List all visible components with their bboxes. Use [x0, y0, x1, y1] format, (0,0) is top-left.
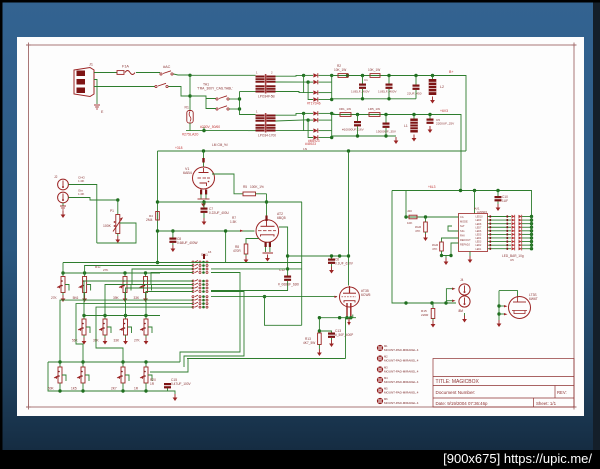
wire	[288, 255, 349, 257]
svg-text:220R: 220R	[421, 313, 429, 317]
wire	[145, 273, 147, 277]
svg-text:6AB4: 6AB4	[183, 171, 192, 175]
attenuator pot R41	[103, 319, 107, 335]
wire	[348, 151, 350, 286]
wire	[319, 99, 332, 101]
wire	[82, 385, 84, 391]
wire	[69, 185, 97, 244]
wire	[59, 383, 61, 385]
junction	[530, 222, 533, 225]
wire	[388, 89, 390, 99]
junction	[361, 74, 364, 77]
wire	[319, 130, 332, 132]
svg-text:50K: 50K	[48, 387, 55, 391]
wire	[488, 230, 512, 232]
wire	[446, 289, 452, 303]
svg-text:1N: 1N	[303, 147, 307, 151]
wire	[229, 98, 240, 100]
wire	[105, 285, 193, 316]
ground	[124, 295, 126, 299]
svg-text:5K6: 5K6	[73, 296, 79, 300]
junction	[286, 267, 289, 270]
svg-text:REFOUT: REFOUT	[460, 238, 471, 242]
wire	[84, 315, 160, 317]
wire	[488, 233, 512, 235]
wire	[308, 82, 313, 99]
wire	[132, 269, 193, 285]
wire	[180, 273, 240, 363]
junction	[440, 254, 443, 257]
junction	[530, 243, 533, 246]
junction	[265, 200, 268, 203]
svg-text:2K7: 2K7	[111, 387, 117, 391]
junction	[428, 113, 431, 116]
potentiometer P1	[116, 215, 120, 234]
junction	[530, 215, 533, 218]
svg-text:1UELF_400V: 1UELF_400V	[378, 90, 398, 94]
wire	[446, 300, 452, 302]
diode D2	[313, 118, 317, 122]
wire	[122, 385, 124, 391]
wire	[318, 345, 320, 350]
wire	[432, 76, 434, 80]
wire	[84, 293, 86, 296]
attenuator pot R43	[144, 319, 148, 335]
wire	[203, 202, 205, 208]
svg-text:0.68UF_400W: 0.68UF_400W	[177, 241, 198, 245]
svg-text:MOUNT-PAD-MIRAKEL.4: MOUNT-PAD-MIRAKEL.4	[384, 358, 419, 362]
svg-text:+6V3: +6V3	[440, 109, 448, 113]
wire	[531, 217, 533, 249]
junction	[61, 271, 64, 274]
ground	[83, 338, 85, 342]
ground	[145, 338, 147, 342]
svg-text:33K: 33K	[114, 339, 121, 343]
junction	[444, 301, 447, 304]
attenuator pot R50	[58, 367, 62, 383]
wire S1A to node	[174, 74, 191, 75]
wire	[345, 318, 347, 359]
mount pad M4	[377, 377, 383, 383]
wire	[332, 114, 435, 116]
svg-text:Document Number:: Document Number:	[436, 390, 476, 395]
svg-text:REV:: REV:	[557, 390, 567, 395]
svg-text:R5: R5	[243, 185, 247, 189]
mount pad M6	[377, 398, 383, 404]
resistor R4	[156, 212, 160, 221]
wire	[498, 291, 500, 320]
junction	[356, 134, 359, 137]
V3 pins	[346, 303, 348, 318]
earth ground	[94, 104, 100, 106]
resistor R22	[369, 113, 380, 117]
ground	[84, 295, 86, 299]
wire	[331, 75, 333, 99]
wire	[276, 74, 304, 77]
resistor R18	[440, 242, 444, 251]
wire	[319, 112, 332, 114]
wire row1 feed	[62, 263, 64, 274]
title block	[433, 359, 574, 408]
wire	[413, 115, 415, 119]
wire	[304, 75, 313, 92]
wire	[203, 151, 205, 167]
wire	[488, 219, 512, 221]
ground	[104, 338, 106, 342]
junction	[345, 316, 348, 319]
wire feed line	[63, 262, 302, 264]
svg-text:MODE: MODE	[460, 220, 468, 224]
junction	[188, 94, 191, 97]
wire	[82, 362, 84, 367]
attenuator pot R40	[82, 319, 86, 335]
wire	[200, 194, 202, 199]
wire	[62, 203, 64, 206]
wire	[308, 120, 313, 137]
wire	[48, 361, 180, 363]
junction	[338, 254, 341, 257]
wire	[357, 115, 359, 122]
junction	[387, 97, 390, 100]
wire	[59, 362, 61, 367]
svg-text:#275LA20: #275LA20	[182, 133, 198, 137]
wire	[205, 194, 207, 199]
wire	[48, 362, 164, 391]
wire	[332, 74, 336, 76]
wire	[497, 202, 499, 205]
rotary switch section C	[192, 299, 194, 301]
wire	[522, 216, 532, 218]
wire	[362, 89, 364, 99]
wire node to T1 primary	[190, 74, 256, 76]
wire	[213, 231, 226, 262]
junction	[302, 112, 305, 115]
wire	[269, 247, 271, 252]
wire	[82, 383, 84, 385]
wire	[276, 92, 304, 93]
resistor R5	[243, 192, 256, 196]
wire S1B step to node	[169, 87, 191, 97]
junction	[330, 136, 333, 139]
attenuator pot R30	[61, 277, 65, 293]
wire	[464, 313, 466, 316]
wire	[331, 256, 333, 259]
resistor R13	[318, 333, 322, 345]
svg-text:#AC: #AC	[163, 65, 171, 69]
wire	[122, 383, 124, 385]
wire	[126, 288, 194, 316]
wire	[157, 151, 159, 263]
jack J4	[459, 284, 470, 295]
wire	[304, 113, 313, 130]
junction	[387, 74, 390, 77]
svg-text:2200UF_25V: 2200UF_25V	[436, 122, 455, 126]
jack J3	[58, 192, 69, 203]
triode V2	[256, 220, 279, 243]
wire to pot top	[117, 200, 119, 215]
wire	[488, 241, 512, 243]
mount pad M5	[377, 387, 383, 393]
attenuator pot R51	[81, 367, 85, 383]
wire	[211, 268, 302, 270]
wire	[145, 385, 147, 391]
svg-text:16: 16	[208, 250, 212, 254]
junction	[530, 218, 533, 221]
svg-text:MOUNT-PAD-MIRAKEL.4: MOUNT-PAD-MIRAKEL.4	[384, 348, 419, 352]
wire	[240, 92, 256, 115]
wire	[172, 243, 174, 245]
svg-text:Sheet: 1/1: Sheet: 1/1	[536, 401, 557, 406]
junction	[473, 189, 476, 192]
svg-text:+6L3: +6L3	[428, 185, 436, 189]
svg-text:4K7_5W: 4K7_5W	[303, 341, 315, 345]
svg-text:1R: 1R	[134, 387, 139, 391]
svg-text:LED2: LED2	[476, 245, 482, 247]
wire	[425, 217, 427, 222]
junction	[530, 226, 533, 229]
wire	[522, 230, 532, 232]
wire J1 pin1 to fuse	[94, 72, 117, 74]
svg-text:SIG: SIG	[460, 229, 464, 233]
wire	[425, 232, 427, 234]
wire	[469, 252, 471, 257]
svg-text:0.1UF_630V: 0.1UF_630V	[335, 262, 354, 266]
junction	[431, 74, 434, 77]
svg-text:100K_1%: 100K_1%	[250, 185, 264, 189]
wire	[488, 223, 512, 225]
svg-text:100K: 100K	[103, 224, 112, 228]
wire	[69, 198, 118, 201]
wire long line	[187, 358, 346, 360]
varistor R1	[187, 111, 193, 124]
svg-text:J4: J4	[460, 278, 464, 282]
ground	[62, 295, 64, 299]
junction	[330, 112, 333, 115]
junction	[530, 233, 533, 236]
ground	[145, 295, 147, 299]
switch S1A	[160, 73, 162, 75]
wire	[385, 115, 387, 123]
wire	[122, 362, 124, 367]
wire	[211, 281, 288, 291]
junction	[318, 329, 321, 332]
svg-text:LED9: LED9	[476, 220, 482, 222]
capacitor C8	[169, 238, 176, 240]
wire	[184, 292, 244, 368]
wire	[84, 281, 193, 316]
junction	[121, 389, 124, 392]
wire	[96, 307, 193, 362]
svg-text:'TRA_300Y_CAS.TABL': 'TRA_300Y_CAS.TABL'	[197, 87, 233, 91]
wire	[352, 315, 354, 318]
wire	[145, 316, 147, 320]
junction	[171, 229, 174, 232]
junction	[58, 360, 61, 363]
wire	[308, 119, 313, 121]
wire	[158, 230, 255, 232]
svg-text:#_068UF_630I: #_068UF_630I	[278, 283, 299, 287]
junction	[188, 74, 191, 77]
wire	[190, 96, 216, 99]
junction	[330, 74, 333, 77]
wire	[442, 251, 452, 256]
junction	[202, 200, 205, 203]
wire stub	[203, 127, 205, 131]
svg-text:LED8: LED8	[476, 224, 482, 226]
V1 cathode pins and ground	[200, 190, 202, 195]
wire	[245, 254, 247, 256]
svg-text:6BQ5: 6BQ5	[277, 216, 286, 220]
junction	[449, 254, 452, 257]
svg-text:10K_1W: 10K_1W	[368, 68, 380, 72]
svg-text:1.0K: 1.0K	[78, 179, 85, 183]
wire	[279, 227, 288, 276]
wire	[385, 128, 387, 136]
svg-text:39K: 39K	[113, 296, 120, 300]
wire	[59, 385, 61, 391]
wire	[76, 304, 193, 362]
junction	[156, 200, 159, 203]
diode D4	[313, 97, 317, 101]
junction	[58, 389, 61, 392]
junction	[497, 312, 500, 315]
resistor R16	[409, 215, 417, 219]
svg-text:0.22UF_400U: 0.22UF_400U	[209, 211, 230, 215]
svg-text:LED7: LED7	[476, 227, 482, 229]
svg-text:10K_1W: 10K_1W	[334, 68, 346, 72]
junction	[306, 118, 309, 121]
pentode V3	[340, 287, 360, 307]
resistor R3	[370, 74, 380, 78]
diode D2	[313, 80, 317, 84]
svg-text:LED10: LED10	[476, 217, 484, 219]
svg-text:F1A: F1A	[122, 65, 129, 69]
attenuator pot R32	[123, 277, 127, 293]
wire	[63, 272, 160, 274]
wire	[104, 316, 106, 320]
resistor R2	[338, 74, 348, 78]
wire	[388, 76, 390, 84]
wire	[522, 223, 532, 225]
wire	[128, 284, 132, 286]
junction	[238, 107, 241, 110]
svg-text:0R1_1W: 0R1_1W	[339, 107, 351, 111]
svg-text:MOUNT-PAD-MIRAKEL.4: MOUNT-PAD-MIRAKEL.4	[384, 380, 419, 384]
connector J1 AC inlet	[74, 68, 94, 97]
wire	[319, 317, 356, 319]
wire	[265, 247, 267, 252]
rotary switch section C top row	[192, 296, 194, 298]
svg-text:8M: 8M	[459, 309, 464, 313]
wire varistor to rail	[189, 123, 191, 131]
wire	[392, 191, 532, 217]
junction	[404, 301, 407, 304]
wire fuse to switch S1A	[136, 72, 160, 74]
junction	[318, 316, 321, 319]
junction	[330, 254, 333, 257]
svg-text:33K: 33K	[134, 296, 141, 300]
wire	[415, 76, 417, 85]
junction	[123, 271, 126, 274]
wire	[229, 108, 240, 110]
wire	[168, 391, 176, 394]
svg-text:Date: 9/19/2004 07:36:46p: Date: 9/19/2004 07:36:46p	[436, 401, 489, 406]
junction	[144, 389, 147, 392]
switch S1B	[155, 85, 157, 87]
wire	[332, 113, 336, 114]
svg-text:6W6T: 6W6T	[529, 297, 538, 301]
svg-text:LPO34-1700: LPO34-1700	[258, 134, 276, 138]
attenuator pot R53	[144, 367, 148, 383]
junction	[424, 215, 427, 218]
wire	[304, 74, 313, 76]
jack J5	[459, 296, 470, 307]
svg-text:#45923: #45923	[305, 142, 316, 146]
wire	[248, 130, 256, 132]
wire	[94, 80, 97, 105]
mount pad M1	[377, 345, 383, 351]
wire	[83, 335, 85, 338]
junction	[430, 301, 433, 304]
svg-text:U5: U5	[510, 258, 514, 262]
svg-text:470R: 470R	[233, 249, 241, 253]
svg-text:#_50F_400P: #_50F_400P	[335, 333, 353, 337]
wire	[488, 216, 512, 218]
wire	[451, 243, 459, 256]
wire	[522, 244, 532, 246]
wire	[145, 362, 147, 367]
junction	[82, 314, 85, 317]
attenuator pot R33	[144, 277, 148, 293]
svg-text:47K: 47K	[415, 229, 420, 233]
svg-text:LED5: LED5	[476, 235, 482, 237]
wire	[332, 98, 416, 100]
svg-text:6CW5: 6CW5	[361, 293, 371, 297]
svg-text:L1: L1	[404, 124, 408, 128]
svg-text:56K: 56K	[72, 339, 79, 343]
wire	[265, 297, 302, 326]
svg-text:P1: P1	[110, 209, 114, 213]
fuse F1	[117, 71, 124, 75]
attenuator pot R31	[83, 277, 87, 293]
wire	[331, 113, 333, 137]
wire	[392, 191, 456, 304]
wire	[125, 335, 127, 338]
junction	[144, 360, 147, 363]
svg-text:#T1YD46: #T1YD46	[307, 102, 321, 106]
wire	[117, 234, 119, 237]
svg-text:LM CM_%/: LM CM_%/	[212, 143, 228, 147]
svg-text:R4: R4	[149, 214, 153, 218]
wire	[488, 248, 512, 250]
wire	[331, 338, 333, 340]
junction	[414, 74, 417, 77]
wire	[319, 137, 332, 139]
junction	[302, 74, 305, 77]
wire	[499, 291, 518, 297]
junction	[361, 97, 364, 100]
wire	[405, 191, 407, 218]
svg-text:REFADJ: REFADJ	[460, 243, 471, 247]
svg-text:C1: C1	[364, 78, 368, 82]
diode D1	[313, 73, 317, 77]
junction	[412, 113, 415, 116]
ground	[125, 338, 127, 342]
diode D1	[313, 111, 317, 115]
junction	[497, 304, 500, 307]
wire	[448, 226, 459, 231]
wire J1 pin3 to S1B	[94, 86, 155, 88]
